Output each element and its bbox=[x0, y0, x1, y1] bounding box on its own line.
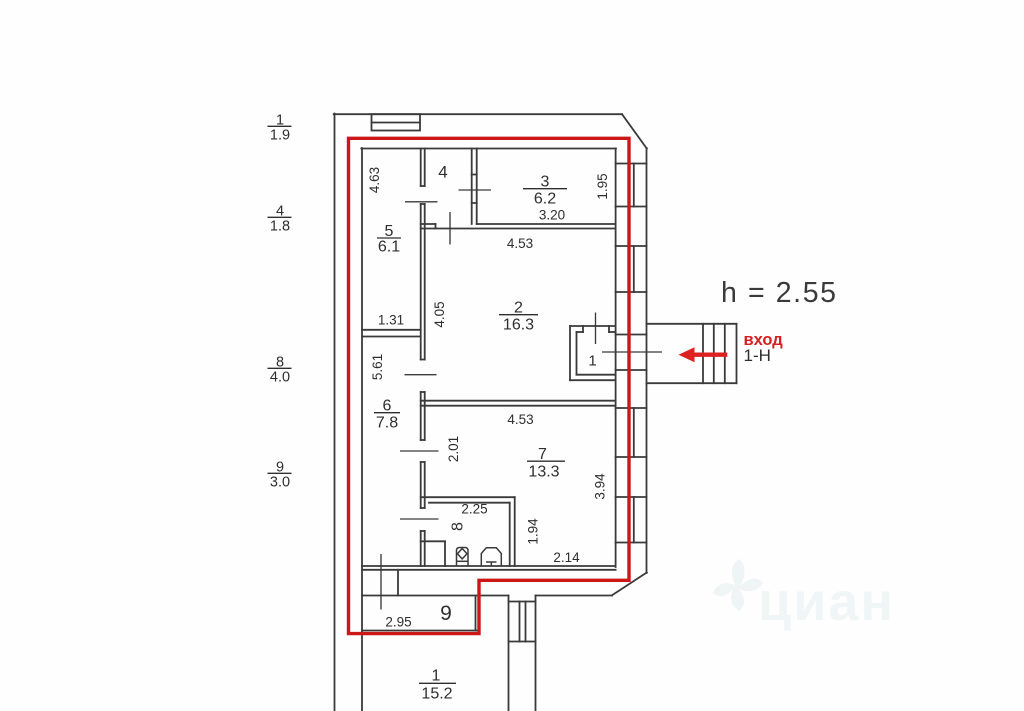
svg-text:1.9: 1.9 bbox=[270, 128, 290, 144]
right wall rung y497 bbox=[616, 496, 647, 498]
svg-text:1.94: 1.94 bbox=[525, 518, 540, 545]
window stairwell bottom rung bbox=[509, 641, 536, 643]
porch bottom bbox=[647, 382, 737, 384]
wall room4-3 right line bbox=[476, 149, 478, 225]
door tick tambour bbox=[595, 313, 597, 345]
svg-text:1: 1 bbox=[432, 668, 441, 685]
room5 fraction bar bbox=[377, 237, 401, 239]
room8 top wall outer bbox=[421, 496, 515, 498]
red entrance arrow head bbox=[679, 347, 695, 362]
svg-text:13.3: 13.3 bbox=[528, 464, 559, 481]
rooms bottom wall lower line bbox=[362, 569, 616, 571]
tambour inner left bbox=[576, 332, 578, 375]
fraction bar 9 bbox=[268, 472, 292, 474]
window stairwell pane right bbox=[525, 602, 527, 642]
room6 fraction bar bbox=[374, 412, 400, 414]
svg-text:7.8: 7.8 bbox=[376, 415, 398, 432]
wall rooms43 bottom lower line bbox=[421, 228, 616, 230]
svg-text:15.2: 15.2 bbox=[421, 686, 452, 703]
tambour inner top bbox=[577, 331, 584, 333]
svg-text:1-Н: 1-Н bbox=[744, 346, 771, 365]
room3 fraction bar bbox=[523, 188, 567, 190]
svg-text:3.94: 3.94 bbox=[592, 473, 607, 500]
duct box on top wall bbox=[372, 114, 421, 130]
porch step 2 bbox=[713, 324, 715, 383]
window stairwell pane left bbox=[519, 602, 521, 642]
wall mid vertical right line bbox=[424, 149, 426, 567]
right wall rung y292 bbox=[616, 291, 647, 293]
wall diagonal top-right bbox=[622, 114, 647, 148]
porch step 3 bbox=[724, 324, 726, 383]
wall rooms43 bottom upper line bbox=[421, 223, 616, 225]
right wall rung y370 entrance bottom bbox=[616, 369, 647, 371]
tambour door jamb right bbox=[608, 326, 610, 332]
porch right edge bbox=[736, 324, 738, 383]
water heater diamond bbox=[457, 549, 467, 559]
wall stairwell left bbox=[508, 596, 510, 711]
toilet T horizontal bbox=[486, 561, 497, 563]
door line entrance bbox=[602, 351, 662, 353]
room2 bottom wall upper line bbox=[421, 400, 616, 402]
svg-text:1.95: 1.95 bbox=[595, 173, 610, 199]
fraction 4 over 1.8 bbox=[270, 204, 290, 235]
window pane line w2 bbox=[633, 246, 635, 292]
door tick room2-room6 bbox=[405, 374, 437, 376]
door tick room5-room4 bbox=[405, 201, 438, 203]
wall outer right bbox=[646, 148, 648, 573]
wall rooms43 bottom jamb bbox=[435, 224, 437, 229]
wall mid vertical left line bbox=[420, 149, 422, 567]
room8 step horizontal bbox=[421, 540, 445, 542]
door tick room4-room3 bbox=[459, 189, 492, 191]
red apartment outline bbox=[349, 138, 630, 633]
right wall rung y163 bbox=[616, 163, 647, 165]
wall stairwell right bbox=[535, 596, 537, 711]
wall diagonal bottom-right bbox=[612, 573, 647, 596]
svg-text:16.3: 16.3 bbox=[503, 317, 534, 334]
duct box mid line bbox=[372, 122, 421, 124]
right wall rung y408 bbox=[616, 407, 647, 409]
right wall rung y457 bbox=[616, 456, 647, 458]
room below fraction bar bbox=[419, 682, 456, 684]
fraction 1 over 1.9 bbox=[270, 113, 290, 144]
door tick room6-room8 bbox=[400, 518, 439, 520]
right wall rung y542 bbox=[616, 542, 647, 544]
room7 fraction bar bbox=[527, 460, 565, 462]
wall mid jamb rungs bbox=[421, 186, 425, 531]
svg-text:4.53: 4.53 bbox=[507, 412, 533, 427]
svg-text:1: 1 bbox=[588, 353, 596, 370]
fraction bar 4 bbox=[268, 216, 292, 218]
svg-text:4.63: 4.63 bbox=[367, 167, 382, 193]
water heater divider bbox=[457, 560, 469, 562]
watermark flower bbox=[713, 559, 763, 611]
window stairwell top rung bbox=[509, 601, 536, 603]
svg-text:3.0: 3.0 bbox=[270, 475, 290, 491]
rooms bottom wall upper line bbox=[362, 565, 616, 567]
wall outer bottom left segment bbox=[362, 595, 509, 597]
svg-text:6.1: 6.1 bbox=[378, 239, 400, 256]
room5 bottom wall upper line bbox=[362, 329, 421, 331]
room5 bottom wall lower line bbox=[362, 336, 421, 338]
room8 right wall outer bbox=[514, 497, 516, 566]
tambour outer top bbox=[570, 325, 616, 327]
right wall rung y206 bbox=[616, 206, 647, 208]
svg-text:2: 2 bbox=[514, 300, 523, 317]
wall room4-3 rungs bbox=[472, 175, 477, 204]
niche right wall below room6 bbox=[397, 570, 399, 596]
svg-text:6: 6 bbox=[383, 398, 392, 415]
right wall rung y334 entrance top bbox=[616, 334, 647, 336]
svg-text:1.31: 1.31 bbox=[378, 313, 404, 328]
red entrance arrow shaft bbox=[692, 353, 727, 357]
room8 right wall inner bbox=[509, 503, 511, 566]
wall inner right bbox=[615, 149, 617, 568]
tambour outer bottom bbox=[570, 379, 616, 381]
fraction bar 8 bbox=[268, 367, 292, 369]
svg-text:1.8: 1.8 bbox=[270, 219, 290, 235]
svg-text:4: 4 bbox=[438, 163, 447, 182]
room8 step vertical bbox=[444, 541, 446, 566]
svg-text:7: 7 bbox=[538, 446, 547, 463]
room2 bottom wall lower line bbox=[421, 405, 616, 407]
tambour door jamb left bbox=[582, 326, 584, 332]
tambour inner top right segment bbox=[609, 331, 616, 333]
room9 right wall bbox=[475, 596, 477, 631]
porch step 1 bbox=[702, 324, 704, 383]
svg-text:4.0: 4.0 bbox=[270, 370, 290, 386]
svg-text:2.25: 2.25 bbox=[461, 502, 487, 517]
toilet T vertical bbox=[490, 562, 492, 566]
svg-text:2.95: 2.95 bbox=[385, 615, 411, 630]
door tick room9 bbox=[380, 554, 382, 610]
svg-text:2.14: 2.14 bbox=[553, 550, 580, 565]
door tick room4-room2 bbox=[449, 212, 451, 245]
fraction 8 over 4.0 bbox=[270, 355, 290, 386]
svg-text:6.2: 6.2 bbox=[534, 191, 556, 208]
svg-text:5.61: 5.61 bbox=[370, 354, 385, 380]
porch top bbox=[647, 323, 737, 325]
door tick room6-room7 bbox=[400, 450, 439, 452]
svg-text:3: 3 bbox=[541, 174, 550, 191]
window pane line w4 bbox=[633, 497, 635, 543]
room9 bottom wall bbox=[362, 630, 477, 632]
svg-text:h = 2.55: h = 2.55 bbox=[721, 277, 838, 309]
fraction 9 over 3.0 bbox=[270, 460, 290, 491]
wall inner top bbox=[361, 148, 616, 150]
svg-text:8: 8 bbox=[449, 522, 466, 531]
window pane line w3 bbox=[633, 408, 635, 457]
right wall rung y246 bbox=[616, 245, 647, 247]
room8 top wall inner bbox=[429, 502, 510, 504]
wall inner left bbox=[361, 148, 363, 711]
svg-text:2.01: 2.01 bbox=[446, 436, 461, 462]
toilet body bbox=[481, 548, 501, 566]
wall outer top bbox=[334, 113, 622, 115]
water heater body bbox=[457, 548, 469, 567]
room2 fraction bar bbox=[499, 314, 538, 316]
fraction bar 1 bbox=[268, 125, 292, 127]
svg-text:3.20: 3.20 bbox=[539, 208, 565, 223]
window pane line w1 bbox=[633, 164, 635, 207]
tambour outer left bbox=[569, 326, 571, 380]
wall outer bottom right segment bbox=[536, 595, 613, 597]
tambour inner bottom bbox=[577, 374, 616, 376]
wall outer left bbox=[334, 114, 336, 711]
wall room4-3 left line bbox=[471, 149, 473, 225]
svg-text:4.05: 4.05 bbox=[432, 301, 447, 327]
svg-text:4.53: 4.53 bbox=[507, 236, 533, 251]
svg-text:циан: циан bbox=[758, 572, 895, 632]
svg-text:9: 9 bbox=[440, 602, 452, 625]
